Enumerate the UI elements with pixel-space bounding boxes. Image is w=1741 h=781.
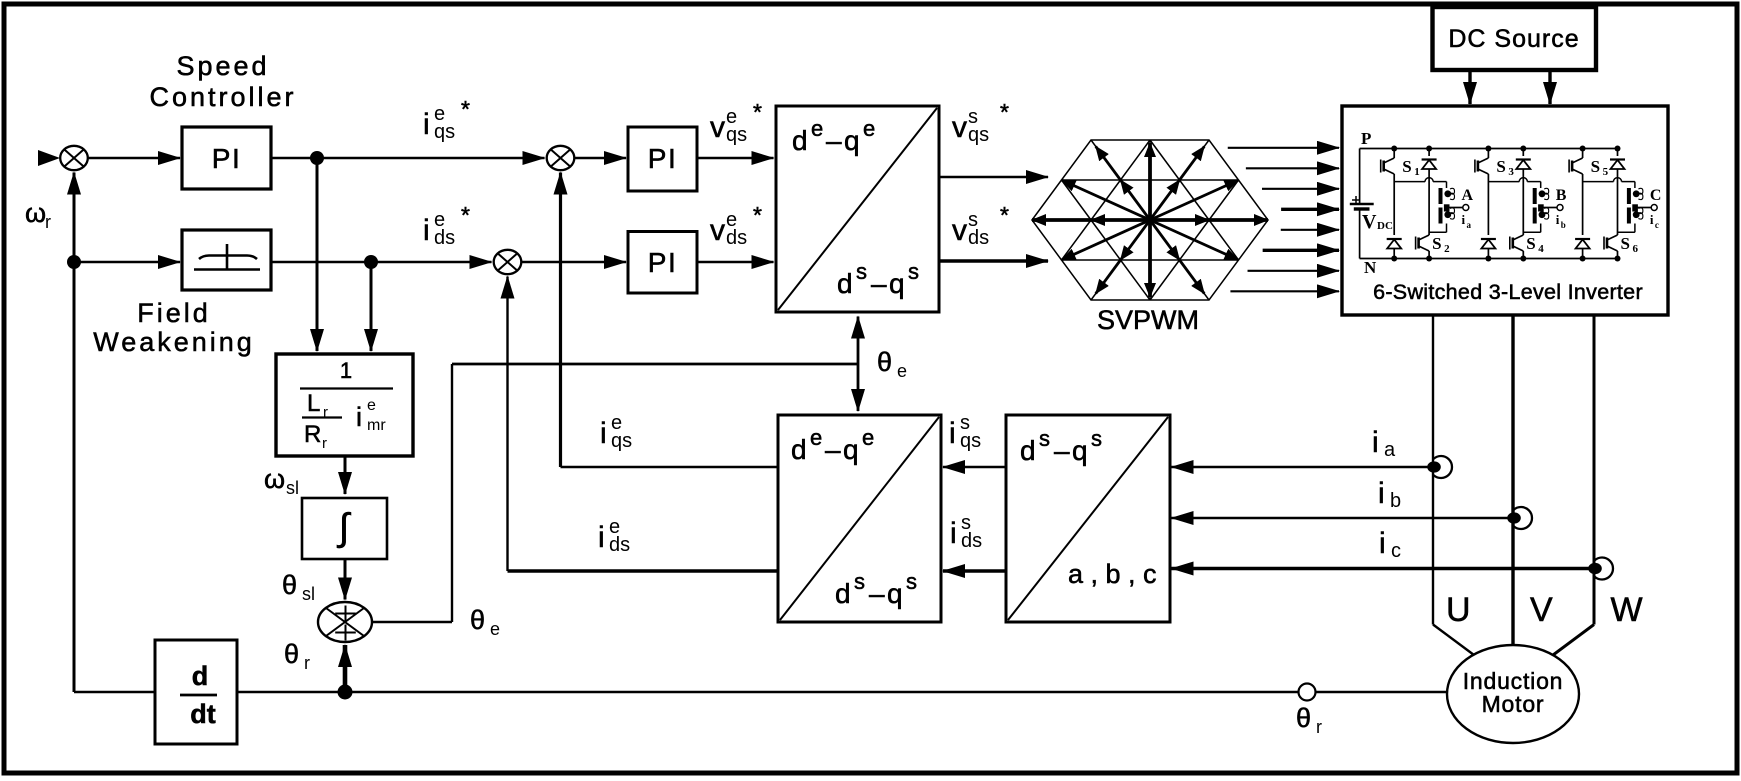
svg-text:Weakening: Weakening xyxy=(93,327,255,357)
svg-text:θ: θ xyxy=(284,639,299,669)
svg-text:q: q xyxy=(844,125,860,156)
svg-text:c: c xyxy=(1391,540,1401,562)
svg-text:d: d xyxy=(837,268,853,299)
svg-text:i: i xyxy=(949,417,956,450)
svg-text:*: * xyxy=(1000,202,1009,228)
svg-text:DC Source: DC Source xyxy=(1448,25,1579,53)
svg-text:6: 6 xyxy=(1633,243,1639,255)
svg-text:qs: qs xyxy=(611,430,632,452)
svg-text:a: a xyxy=(1384,439,1396,461)
svg-text:ω: ω xyxy=(264,464,285,494)
svg-text:e: e xyxy=(863,116,875,141)
svg-text:θ: θ xyxy=(1296,703,1311,733)
svg-text:s: s xyxy=(906,569,917,594)
svg-text:i: i xyxy=(423,214,430,247)
svg-text:*: * xyxy=(753,99,762,125)
svg-text:ds: ds xyxy=(434,227,455,249)
svg-text:–: – xyxy=(826,125,842,156)
svg-text:v: v xyxy=(952,214,967,247)
svg-text:4: 4 xyxy=(1538,243,1544,255)
svg-text:B: B xyxy=(1556,187,1567,204)
svg-text:r: r xyxy=(304,653,310,673)
svg-text:qs: qs xyxy=(726,124,747,146)
svg-text:*: * xyxy=(1000,99,1009,125)
svg-text:1: 1 xyxy=(1414,166,1420,178)
svg-text:5: 5 xyxy=(1603,166,1609,178)
svg-text:r: r xyxy=(45,212,51,232)
svg-text:i: i xyxy=(1378,477,1385,510)
svg-text:r: r xyxy=(1316,717,1322,737)
svg-text:v: v xyxy=(952,111,967,144)
svg-text:*: * xyxy=(461,202,470,228)
svg-text:DC: DC xyxy=(1377,220,1393,232)
svg-text:–: – xyxy=(871,268,887,299)
svg-text:S: S xyxy=(1526,234,1535,253)
svg-text:V: V xyxy=(1530,591,1553,629)
svg-text:s: s xyxy=(856,259,867,284)
svg-text:qs: qs xyxy=(960,430,981,452)
svg-text:i: i xyxy=(950,517,957,550)
svg-text:i: i xyxy=(598,521,605,554)
svg-text:d: d xyxy=(835,578,851,609)
svg-text:A: A xyxy=(1462,187,1474,204)
svg-text:W: W xyxy=(1611,591,1643,629)
svg-text:V: V xyxy=(1362,211,1377,233)
svg-text:–: – xyxy=(869,578,885,609)
svg-text:ds: ds xyxy=(726,227,747,249)
svg-text:d: d xyxy=(192,661,209,691)
svg-text:d: d xyxy=(791,434,807,465)
svg-text:i: i xyxy=(423,108,430,141)
svg-text:ds: ds xyxy=(961,530,982,552)
svg-text:d: d xyxy=(1020,435,1036,466)
svg-text:i: i xyxy=(600,417,607,450)
svg-text:e: e xyxy=(811,116,823,141)
svg-text:q: q xyxy=(843,434,859,465)
svg-text:e: e xyxy=(367,397,376,414)
svg-text:C: C xyxy=(1650,187,1662,204)
svg-text:*: * xyxy=(461,96,470,122)
svg-text:e: e xyxy=(862,425,874,450)
svg-text:1: 1 xyxy=(340,358,352,383)
svg-text:θ: θ xyxy=(877,347,892,377)
svg-text:q: q xyxy=(887,578,903,609)
svg-text:3: 3 xyxy=(1508,166,1514,178)
svg-text:S: S xyxy=(1621,234,1630,253)
svg-text:a , b , c: a , b , c xyxy=(1068,559,1157,589)
svg-text:e: e xyxy=(490,619,500,639)
svg-text:e: e xyxy=(810,425,822,450)
svg-text:θ: θ xyxy=(282,570,297,600)
svg-text:U: U xyxy=(1446,591,1471,629)
svg-text:i: i xyxy=(1556,212,1560,227)
svg-text:qs: qs xyxy=(968,124,989,146)
svg-text:*: * xyxy=(753,202,762,228)
svg-text:θ: θ xyxy=(470,605,485,635)
svg-text:qs: qs xyxy=(434,121,455,143)
svg-text:ds: ds xyxy=(609,534,630,556)
svg-text:mr: mr xyxy=(367,417,386,434)
svg-text:i: i xyxy=(1379,527,1386,560)
svg-text:v: v xyxy=(710,111,725,144)
svg-text:Motor: Motor xyxy=(1482,691,1545,717)
svg-text:N: N xyxy=(1364,258,1377,277)
svg-text:ds: ds xyxy=(968,227,989,249)
svg-text:PI: PI xyxy=(212,143,241,174)
svg-text:s: s xyxy=(1039,426,1050,451)
svg-text:S: S xyxy=(1496,157,1505,176)
svg-text:sl: sl xyxy=(286,478,299,498)
svg-text:b: b xyxy=(1561,220,1566,230)
svg-text:b: b xyxy=(1390,490,1401,512)
svg-text:PI: PI xyxy=(648,247,677,278)
svg-text:S: S xyxy=(1591,157,1600,176)
svg-text:i: i xyxy=(1462,212,1466,227)
svg-text:–: – xyxy=(825,434,841,465)
svg-text:a: a xyxy=(1467,220,1472,230)
svg-text:PI: PI xyxy=(648,143,677,174)
svg-text:r: r xyxy=(322,435,327,452)
svg-text:2: 2 xyxy=(1444,243,1450,255)
svg-text:Field: Field xyxy=(137,298,211,328)
svg-text:L: L xyxy=(307,390,320,417)
svg-text:v: v xyxy=(710,214,725,247)
svg-text:–: – xyxy=(1054,435,1070,466)
svg-text:q: q xyxy=(889,268,905,299)
svg-text:Speed: Speed xyxy=(176,51,269,81)
svg-text:i: i xyxy=(1372,426,1379,459)
svg-text:e: e xyxy=(897,361,907,381)
svg-text:R: R xyxy=(304,421,321,448)
svg-text:P: P xyxy=(1361,129,1371,148)
svg-text:s: s xyxy=(1091,426,1102,451)
svg-text:q: q xyxy=(1072,435,1088,466)
svg-text:ω: ω xyxy=(25,198,46,228)
svg-text:Controller: Controller xyxy=(149,82,296,112)
svg-text:c: c xyxy=(1655,220,1659,230)
svg-text:s: s xyxy=(908,259,919,284)
svg-text:s: s xyxy=(854,569,865,594)
svg-text:i: i xyxy=(1650,212,1654,227)
svg-text:i: i xyxy=(356,402,362,432)
svg-text:d: d xyxy=(792,125,808,156)
svg-text:S: S xyxy=(1432,234,1441,253)
svg-text:dt: dt xyxy=(190,699,215,729)
svg-text:sl: sl xyxy=(302,584,315,604)
svg-text:SVPWM: SVPWM xyxy=(1097,305,1199,335)
svg-text:S: S xyxy=(1402,157,1411,176)
svg-text:6-Switched 3-Level Inverter: 6-Switched 3-Level Inverter xyxy=(1373,280,1643,304)
